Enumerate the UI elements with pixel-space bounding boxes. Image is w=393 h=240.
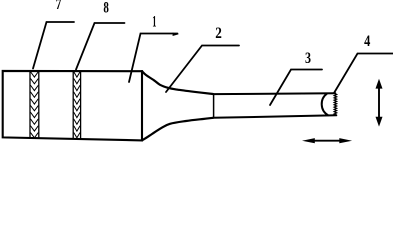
piezo strip 7 chevron hatch (31, 72, 38, 138)
tip 4 serrated end edge (334, 93, 336, 115)
vertical arrow top head (376, 79, 383, 89)
leader line 7 (33, 22, 74, 69)
svg-text:4: 4 (364, 33, 370, 50)
svg-text:7: 7 (56, 0, 62, 13)
tip 4 rounded face arc (322, 94, 328, 116)
svg-text:8: 8 (103, 0, 109, 16)
vertical vibration double arrow shaft (378, 85, 380, 120)
leader line 3 (270, 70, 322, 106)
horizontal arrow left head (302, 138, 315, 143)
leader 1 end tick (173, 33, 179, 36)
piezo strip 7 right edge (38, 71, 40, 138)
horn taper 2 top curve (142, 71, 213, 94)
piezo strip 8 chevron hatch (74, 72, 80, 138)
vertical arrow bottom head (376, 117, 383, 127)
horizontal arrow right head (339, 138, 352, 143)
taper-rod junction line (213, 94, 215, 118)
rod 3 bottom line (213, 115, 336, 118)
leader line 1 (129, 34, 178, 83)
horn taper 2 bottom curve (142, 118, 213, 141)
svg-text:3: 3 (305, 50, 311, 67)
leader line 4 (334, 54, 393, 94)
piezo strip 8 left edge (72, 71, 74, 138)
piezo strip 8 right edge (80, 71, 82, 138)
rod 3 top line (213, 92, 335, 95)
piezo strip 7 left edge (29, 71, 31, 138)
leader line 8 (76, 23, 125, 70)
horizontal vibration double arrow shaft (309, 140, 345, 142)
svg-text:1: 1 (152, 13, 156, 30)
transducer body block (back mass + front block 1) (3, 71, 142, 140)
svg-text:2: 2 (215, 25, 222, 42)
leader line 2 (166, 46, 239, 93)
